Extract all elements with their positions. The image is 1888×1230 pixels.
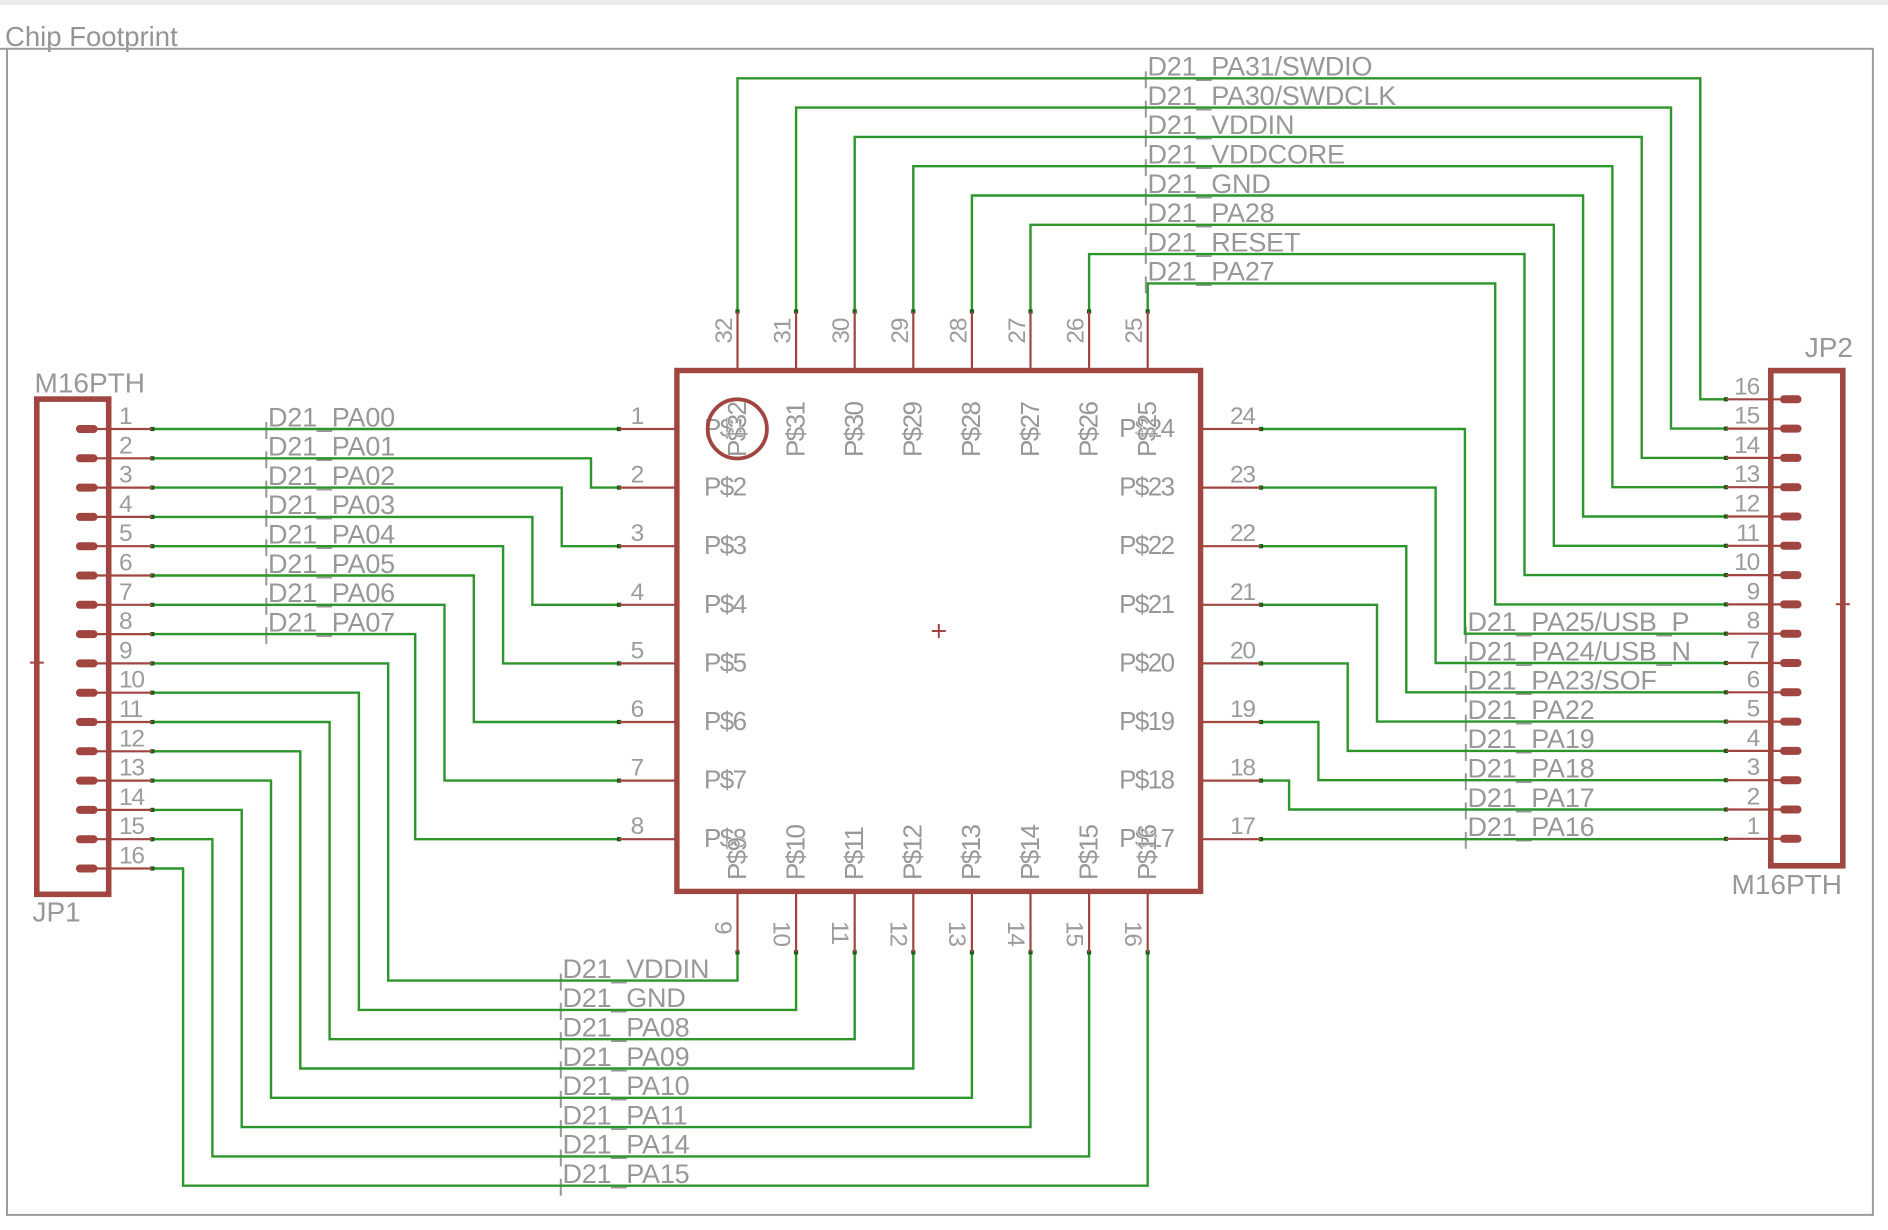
wire D21_PA18 chip pin 19 to JP2.3	[1259, 720, 1728, 782]
svg-text:P$28: P$28	[956, 402, 986, 457]
wire D21_PA09 JP1.12 to chip pin 12	[150, 749, 915, 1068]
chip pin 24 number and name	[1119, 403, 1255, 443]
wire D21_PA22 chip pin 21 to JP2.5	[1259, 603, 1728, 724]
wire D21_PA04 JP1.5 to chip pin 5	[150, 544, 621, 665]
JP2 pin 1 number	[1747, 813, 1760, 840]
chip pin 27 lead	[1029, 312, 1031, 372]
svg-text:P$5: P$5	[704, 647, 747, 677]
svg-text:7: 7	[631, 755, 644, 782]
net label D21_PA11	[561, 1100, 688, 1137]
net label D21_PA19	[1466, 724, 1595, 761]
wire D21_PA08 JP1.11 to chip pin 11	[150, 720, 857, 1039]
net label D21_PA01	[266, 432, 395, 469]
chip pin 21 lead	[1202, 604, 1262, 606]
wire D21_PA25/USB_P chip pin 24 to JP2.8	[1259, 427, 1728, 636]
svg-text:2: 2	[119, 432, 132, 459]
svg-text:14: 14	[1734, 432, 1759, 459]
JP2 origin cross	[1836, 597, 1850, 611]
svg-text:21: 21	[1230, 579, 1255, 606]
chip pin 25 number and name	[1121, 318, 1162, 457]
JP1 pin 1 lead	[76, 425, 152, 433]
JP1 pin 7 lead	[76, 601, 152, 609]
net label D21_PA30/SWDCLK	[1146, 81, 1397, 118]
svg-text:D21_PA10: D21_PA10	[563, 1071, 690, 1101]
chip pin 5 number and name	[631, 637, 747, 677]
svg-text:P$9: P$9	[722, 837, 752, 880]
chip pin 22 lead	[1202, 545, 1262, 547]
wire D21_PA05 JP1.6 to chip pin 6	[150, 573, 621, 724]
JP1 pin 11 lead	[76, 718, 152, 726]
svg-text:8: 8	[631, 813, 644, 840]
svg-text:M16PTH: M16PTH	[35, 368, 145, 399]
svg-text:29: 29	[887, 318, 914, 343]
chip pin 2 lead	[619, 487, 676, 489]
JP2 pin 16 lead	[1726, 395, 1802, 403]
JP2 pin 12 number	[1734, 491, 1759, 518]
wire D21_PA17 chip pin 18 to JP2.2	[1259, 779, 1728, 812]
JP2 pin 2 number	[1747, 784, 1760, 811]
JP1 pin 16 lead	[76, 865, 152, 873]
chip pin 7 number and name	[631, 755, 747, 795]
wire D21_PA24/USB_N chip pin 23 to JP2.7	[1259, 486, 1728, 666]
net label D21_PA31/SWDIO	[1146, 52, 1372, 89]
net label D21_PA00	[266, 402, 395, 439]
net label D21_PA02	[266, 461, 395, 498]
chip pin 29 lead	[912, 312, 914, 372]
JP2 pin 14 number	[1734, 432, 1759, 459]
chip pin 13 lead	[971, 893, 973, 952]
chip pin 30 lead	[854, 312, 856, 372]
JP2 pin 14 lead	[1726, 454, 1802, 462]
chip pin 15 number and name	[1060, 825, 1103, 947]
svg-text:9: 9	[1747, 578, 1760, 605]
svg-text:17: 17	[1230, 813, 1255, 840]
svg-text:P$29: P$29	[898, 402, 928, 457]
JP1 pin 16 number	[119, 843, 144, 870]
JP1 pin 2 number	[119, 432, 132, 459]
JP1 pin 12 lead	[76, 747, 152, 755]
svg-text:P$4: P$4	[704, 589, 747, 619]
net label D21_PA28	[1146, 198, 1275, 235]
JP1 pin 13 lead	[76, 777, 152, 785]
JP1 pin 13 number	[119, 755, 144, 782]
net label D21_VDDCORE	[1146, 140, 1345, 177]
svg-text:P$21: P$21	[1119, 589, 1174, 619]
net label D21_RESET	[1146, 227, 1300, 264]
chip pin 19 lead	[1202, 721, 1262, 723]
wire D21_RESET chip pin 26 to JP2.10	[1087, 254, 1728, 577]
svg-text:12: 12	[119, 725, 144, 752]
JP2 pin 6 number	[1747, 666, 1760, 693]
JP1 pin 8 lead	[76, 630, 152, 638]
chip pin 24 lead	[1202, 428, 1262, 430]
chip pin 31 lead	[795, 312, 797, 372]
net label D21_GND	[1146, 169, 1271, 206]
svg-text:10: 10	[119, 667, 144, 694]
chip pin 30 number and name	[828, 318, 869, 457]
svg-text:5: 5	[1747, 696, 1760, 723]
chip pin 14 number and name	[1002, 825, 1045, 947]
net label D21_PA08	[561, 1013, 690, 1050]
chip pin 5 lead	[619, 662, 676, 664]
svg-text:15: 15	[119, 813, 144, 840]
chip pin 6 number and name	[631, 696, 747, 736]
svg-text:P$10: P$10	[780, 825, 810, 880]
svg-text:26: 26	[1063, 318, 1090, 343]
svg-text:3: 3	[119, 462, 132, 489]
chip pin 18 lead	[1202, 779, 1262, 781]
JP2 pin 9 lead	[1726, 600, 1802, 608]
JP1 pin 7 number	[119, 579, 132, 606]
chip pin 18 number and name	[1119, 755, 1255, 795]
chip footprint body outline	[677, 371, 1201, 892]
JP2 pin 3 number	[1747, 754, 1760, 781]
chip pin 28 number and name	[945, 318, 986, 457]
wire D21_PA11 JP1.14 to chip pin 14	[150, 808, 1032, 1127]
chip pin 10 number and name	[767, 825, 810, 947]
net label D21_PA04	[266, 520, 395, 557]
JP1 pin 3 number	[119, 462, 132, 489]
chip pin 7 lead	[619, 779, 676, 781]
svg-text:P$15: P$15	[1073, 825, 1103, 880]
svg-text:JP2: JP2	[1805, 332, 1853, 363]
svg-text:5: 5	[631, 637, 644, 664]
svg-text:4: 4	[1747, 725, 1760, 752]
svg-text:P$11: P$11	[839, 826, 869, 880]
chip pin 31 number and name	[770, 318, 811, 457]
chip pin 6 lead	[619, 721, 676, 723]
svg-text:2: 2	[631, 462, 644, 489]
svg-text:20: 20	[1230, 637, 1255, 664]
chip pin 3 lead	[619, 545, 676, 547]
svg-text:27: 27	[1004, 318, 1031, 343]
svg-text:P$2: P$2	[704, 472, 747, 502]
svg-text:6: 6	[119, 550, 132, 577]
wire D21_PA15 JP1.16 to chip pin 16	[150, 866, 1150, 1185]
svg-text:19: 19	[1230, 696, 1255, 723]
svg-text:1: 1	[119, 403, 132, 430]
chip pin 29 number and name	[887, 318, 928, 457]
wire D21_PA14 JP1.15 to chip pin 15	[150, 837, 1091, 1156]
JP2 pin 15 number	[1734, 403, 1759, 430]
chip pin 32 number and name	[711, 318, 752, 457]
chip origin cross	[932, 624, 946, 638]
wire D21_PA06 JP1.7 to chip pin 7	[150, 603, 621, 783]
JP2 pin 7 lead	[1726, 659, 1802, 667]
JP1 pin 14 number	[119, 784, 144, 811]
svg-text:P$22: P$22	[1119, 530, 1174, 560]
JP2 pin 10 lead	[1726, 571, 1802, 579]
JP2 value label M16PTH	[1732, 869, 1842, 900]
chip pin 1 lead	[619, 428, 676, 430]
svg-text:JP1: JP1	[33, 897, 81, 928]
svg-text:9: 9	[119, 637, 132, 664]
chip pin 19 number and name	[1119, 696, 1255, 736]
svg-text:3: 3	[631, 520, 644, 547]
JP1 pin 6 lead	[76, 572, 152, 580]
wire D21_PA07 JP1.8 to chip pin 8	[150, 632, 621, 841]
svg-text:P$18: P$18	[1119, 765, 1174, 795]
svg-text:P$13: P$13	[956, 825, 986, 880]
svg-text:25: 25	[1121, 318, 1148, 343]
svg-text:P$31: P$31	[780, 402, 810, 457]
svg-text:3: 3	[1747, 754, 1760, 781]
JP1 pin 14 lead	[76, 806, 152, 814]
svg-text:6: 6	[1747, 666, 1760, 693]
JP2 pin 16 number	[1734, 373, 1759, 400]
svg-text:11: 11	[1736, 520, 1760, 547]
wire D21_PA28 chip pin 27 to JP2.11	[1028, 225, 1728, 548]
net label D21_PA17	[1466, 783, 1595, 820]
chip pin 15 lead	[1088, 893, 1090, 952]
chip pin 14 lead	[1029, 893, 1031, 952]
svg-text:7: 7	[1747, 637, 1760, 664]
svg-text:12: 12	[1734, 491, 1759, 518]
wire D21_GND JP1.10 to chip pin 10	[150, 691, 798, 1010]
svg-text:5: 5	[119, 520, 132, 547]
JP1 pin 3 lead	[76, 484, 152, 492]
wire D21_PA31/SWDIO chip pin 32 to JP2.16	[735, 78, 1728, 401]
svg-text:D21_PA14: D21_PA14	[563, 1130, 690, 1160]
net label D21_PA16	[1466, 812, 1595, 849]
chip pin 13 number and name	[943, 825, 986, 947]
chip pin 9 number and name	[709, 837, 752, 934]
wire D21_PA00 JP1.1 to chip pin 1	[150, 427, 621, 431]
JP2 pin 10 number	[1734, 549, 1759, 576]
JP1 pin 9 lead	[76, 659, 152, 667]
JP1 pin 10 lead	[76, 689, 152, 697]
chip pin 11 number and name	[826, 826, 869, 944]
JP2 pin 1 lead	[1726, 835, 1802, 843]
svg-text:15: 15	[1734, 403, 1759, 430]
svg-text:P$27: P$27	[1015, 402, 1045, 457]
svg-text:12: 12	[885, 921, 912, 946]
chip pin 10 lead	[795, 893, 797, 952]
svg-text:11: 11	[826, 921, 853, 945]
JP1 value label M16PTH	[35, 368, 145, 399]
chip pin 12 number and name	[885, 825, 928, 947]
chip pin 17 number and name	[1119, 813, 1255, 853]
chip pin 8 lead	[619, 838, 676, 840]
JP1 pin 10 number	[119, 667, 144, 694]
svg-text:13: 13	[1734, 461, 1759, 488]
JP1 pin 2 lead	[76, 454, 152, 462]
svg-text:8: 8	[1747, 608, 1760, 635]
JP2 pin 5 number	[1747, 696, 1760, 723]
chip pin 27 number and name	[1004, 318, 1045, 457]
JP2 pin 11 lead	[1726, 542, 1802, 550]
svg-text:P$23: P$23	[1119, 472, 1174, 502]
chip pin 23 lead	[1202, 487, 1262, 489]
svg-text:22: 22	[1230, 520, 1255, 547]
JP2 pin 5 lead	[1726, 718, 1802, 726]
svg-text:23: 23	[1230, 462, 1255, 489]
net label D21_PA03	[266, 490, 395, 527]
JP1 pin 15 number	[119, 813, 144, 840]
chip pin 2 number and name	[631, 462, 747, 502]
svg-text:16: 16	[1734, 373, 1759, 400]
svg-text:16: 16	[119, 843, 144, 870]
wire D21_PA03 JP1.4 to chip pin 4	[150, 515, 621, 607]
net label D21_PA09	[561, 1042, 690, 1079]
JP1 pin 8 number	[119, 608, 132, 635]
svg-text:30: 30	[828, 318, 855, 343]
svg-text:P$20: P$20	[1119, 647, 1174, 677]
net label D21_PA05	[266, 549, 395, 586]
wire D21_PA02 JP1.3 to chip pin 3	[150, 486, 621, 549]
wire D21_PA10 JP1.13 to chip pin 13	[150, 779, 974, 1098]
JP2 pin 11 number	[1736, 520, 1760, 547]
svg-text:14: 14	[119, 784, 144, 811]
svg-text:8: 8	[119, 608, 132, 635]
svg-text:P$25: P$25	[1132, 402, 1162, 457]
svg-text:10: 10	[1734, 549, 1759, 576]
svg-text:Chip Footprint: Chip Footprint	[5, 21, 178, 52]
svg-text:P$16: P$16	[1132, 825, 1162, 880]
net label D21_PA14	[561, 1130, 690, 1167]
svg-text:1: 1	[1747, 813, 1760, 840]
svg-text:P$12: P$12	[898, 825, 928, 880]
JP1 pin 12 number	[119, 725, 144, 752]
chip pin 26 lead	[1088, 312, 1090, 372]
JP1 pin 11 number	[119, 696, 143, 723]
JP2 pin 9 number	[1747, 578, 1760, 605]
chip pin 3 number and name	[631, 520, 747, 560]
svg-text:32: 32	[711, 318, 738, 343]
net label D21_PA27	[1146, 257, 1275, 294]
chip pin 4 number and name	[631, 579, 747, 619]
svg-text:P$30: P$30	[839, 402, 869, 457]
svg-text:P$19: P$19	[1119, 706, 1174, 736]
svg-text:10: 10	[767, 921, 794, 946]
wire D21_PA23/SOF chip pin 22 to JP2.6	[1259, 544, 1728, 694]
JP2 pin 4 number	[1747, 725, 1760, 752]
chip pin-1 indicator circle	[708, 399, 767, 458]
svg-text:11: 11	[119, 696, 143, 723]
svg-text:M16PTH: M16PTH	[1732, 869, 1842, 900]
svg-text:4: 4	[119, 491, 132, 518]
top window edge band	[0, 0, 1888, 5]
chip pin 22 number and name	[1119, 520, 1255, 560]
svg-text:1: 1	[631, 403, 644, 430]
svg-text:16: 16	[1119, 921, 1146, 946]
chip pin 21 number and name	[1119, 579, 1255, 619]
svg-text:13: 13	[943, 921, 970, 946]
svg-text:14: 14	[1002, 921, 1029, 946]
svg-text:2: 2	[1747, 784, 1760, 811]
chip pin 4 lead	[619, 604, 676, 606]
svg-text:P$6: P$6	[704, 706, 747, 736]
chip pin 11 lead	[854, 893, 856, 952]
net label D21_PA06	[266, 578, 395, 615]
JP1 pin 6 number	[119, 550, 132, 577]
chip pin 8 number and name	[631, 813, 747, 853]
wire D21_PA16 chip pin 17 to JP2.1	[1259, 837, 1728, 842]
chip pin 9 lead	[736, 893, 738, 952]
net label D21_PA15	[561, 1159, 690, 1196]
chip pin 16 number and name	[1119, 825, 1162, 947]
net label D21_PA10	[561, 1071, 690, 1108]
chip pin 20 lead	[1202, 662, 1262, 664]
svg-text:P$26: P$26	[1073, 402, 1103, 457]
JP1 reference designator	[33, 897, 81, 928]
svg-text:7: 7	[119, 579, 132, 606]
net label D21_PA23/SOF	[1466, 666, 1657, 703]
net label D21_PA22	[1466, 695, 1595, 732]
JP1 origin cross	[30, 656, 44, 670]
wire D21_VDDCORE chip pin 29 to JP2.13	[911, 166, 1728, 489]
chip pin 12 lead	[912, 893, 914, 952]
net label D21_PA07	[266, 607, 395, 644]
svg-text:28: 28	[945, 318, 972, 343]
wire D21_VDDIN chip pin 30 to JP2.14	[853, 137, 1729, 460]
chip pin 32 lead	[736, 312, 738, 372]
svg-text:18: 18	[1230, 755, 1255, 782]
svg-text:24: 24	[1230, 403, 1255, 430]
wire D21_PA01 JP1.2 to chip pin 2	[150, 456, 621, 490]
svg-text:9: 9	[709, 921, 736, 934]
connector JP1 (M16PTH) body	[37, 399, 109, 894]
chip pin 20 number and name	[1119, 637, 1255, 677]
chip pin 25 lead	[1147, 312, 1149, 372]
svg-text:P$3: P$3	[704, 530, 747, 560]
wire D21_GND chip pin 28 to JP2.12	[970, 196, 1728, 519]
JP2 pin 13 number	[1734, 461, 1759, 488]
JP1 pin 4 number	[119, 491, 132, 518]
JP1 pin 5 lead	[76, 542, 152, 550]
JP1 pin 9 number	[119, 637, 132, 664]
JP2 pin 8 lead	[1726, 630, 1802, 638]
chip pin 28 lead	[971, 312, 973, 372]
JP2 pin 4 lead	[1726, 747, 1802, 755]
JP1 pin 15 lead	[76, 835, 152, 843]
svg-text:P$32: P$32	[722, 402, 752, 457]
chip pin 1 number and name	[631, 403, 747, 443]
wire D21_PA30/SWDCLK chip pin 31 to JP2.15	[794, 108, 1728, 431]
svg-text:D21_PA31/SWDIO: D21_PA31/SWDIO	[1148, 52, 1373, 82]
chip pin 17 lead	[1202, 838, 1262, 840]
JP1 pin 4 lead	[76, 513, 152, 521]
connector JP2 (M16PTH) body	[1771, 371, 1843, 866]
net label D21_VDDIN	[561, 954, 709, 991]
chip pin 16 lead	[1147, 893, 1149, 952]
JP2 pin 2 lead	[1726, 806, 1802, 814]
svg-text:D21_RESET: D21_RESET	[1148, 227, 1301, 257]
JP1 pin 1 number	[119, 403, 132, 430]
wire D21_PA19 chip pin 20 to JP2.4	[1259, 661, 1728, 753]
svg-text:31: 31	[770, 318, 797, 343]
JP2 pin 12 lead	[1726, 513, 1802, 521]
JP2 pin 13 lead	[1726, 483, 1802, 491]
JP2 pin 6 lead	[1726, 688, 1802, 696]
net label D21_GND	[561, 983, 686, 1020]
svg-text:D21_PA16: D21_PA16	[1468, 812, 1595, 842]
net label D21_PA24/USB_N	[1466, 636, 1691, 673]
svg-text:P$7: P$7	[704, 765, 747, 795]
svg-text:6: 6	[631, 696, 644, 723]
JP2 pin 8 number	[1747, 608, 1760, 635]
svg-text:P$14: P$14	[1015, 825, 1045, 880]
net label D21_VDDIN	[1146, 110, 1294, 147]
svg-text:13: 13	[119, 755, 144, 782]
JP2 pin 15 lead	[1726, 425, 1802, 433]
chip pin 23 number and name	[1119, 462, 1255, 502]
JP2 reference designator	[1805, 332, 1853, 363]
JP1 pin 5 number	[119, 520, 132, 547]
net label D21_PA25/USB_P	[1466, 607, 1690, 644]
svg-text:15: 15	[1060, 921, 1087, 946]
wire D21_PA27 chip pin 25 to JP2.9	[1146, 283, 1729, 606]
